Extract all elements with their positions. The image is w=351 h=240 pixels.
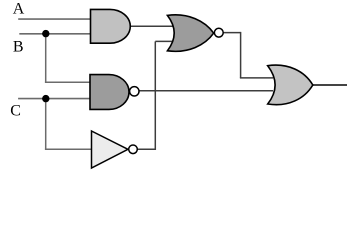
wire OR output — [312, 84, 348, 86]
wire B branch to NAND — [45, 81, 91, 83]
wire B input — [19, 33, 91, 35]
wire riser to NOR input 2 — [155, 40, 173, 42]
NOR gate U3 body — [167, 15, 213, 51]
wire AND output to NOR input 1 — [130, 25, 174, 27]
inverter U4 bubble — [129, 145, 138, 154]
wire C input — [18, 98, 91, 100]
wire NOR output horizontal — [223, 32, 241, 34]
wire B branch vertical — [45, 34, 47, 83]
wire C branch vertical — [45, 99, 47, 150]
svg-text:B: B — [13, 39, 24, 56]
junction dot on B — [42, 30, 49, 37]
junction dot on C — [42, 95, 49, 102]
wire NOR output vertical drop — [240, 32, 242, 78]
inverter U4 body — [92, 131, 129, 168]
NOR gate U3 bubble — [214, 28, 223, 37]
wire A input — [18, 18, 91, 20]
svg-text:A: A — [13, 1, 25, 18]
AND gate U1 — [91, 9, 131, 43]
NAND gate U2 bubble — [130, 87, 139, 96]
NAND gate U2 body — [90, 75, 129, 110]
wire NAND output to OR input 2 — [139, 90, 274, 92]
svg-text:C: C — [10, 103, 21, 120]
wire drop to OR input 1 — [240, 77, 273, 79]
wire inverter output horizontal — [137, 148, 156, 150]
wire inverter output vertical riser — [154, 41, 156, 150]
wire C branch to inverter — [45, 148, 93, 150]
OR gate U5 — [268, 65, 313, 105]
